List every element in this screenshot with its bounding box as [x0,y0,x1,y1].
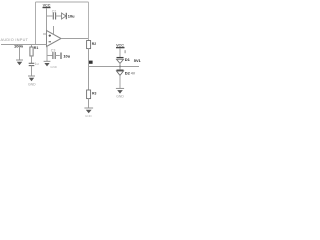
svg-text:R3: R3 [92,91,96,95]
wire feedback loop top horizontal [36,1,89,3]
wire input [1,44,47,46]
capacitor plate [60,53,62,60]
svg-text:4V: 4V [131,72,136,76]
ground 3 [44,61,58,69]
wire [88,99,90,108]
capacitor C3 [51,49,56,60]
svg-text:GND: GND [85,114,93,118]
wire op-amp output [61,38,89,40]
svg-text:5V1: 5V1 [134,58,142,63]
wire feedback loop left vertical [35,2,37,45]
ground 4 [84,108,93,118]
ground 1 [16,60,23,65]
svg-text:R2: R2 [92,42,96,46]
diode D1 [117,58,124,67]
wire [88,67,90,91]
wire [88,49,90,67]
wire bypass branch [47,55,52,57]
wire op-amp gnd pin [46,47,48,62]
power flag VCC2 [116,44,125,58]
power flag VCC1 [43,3,51,34]
svg-text:10u: 10u [63,54,70,59]
wire + input stub [43,33,47,35]
wire output column top [88,2,90,41]
svg-text:AUDIO INPUT: AUDIO INPUT [1,38,29,42]
svg-text:GND: GND [116,94,124,98]
label tick [125,50,126,53]
svg-text:10u: 10u [68,14,75,19]
wire rail y16 [47,15,53,17]
resistor R3 [87,90,97,99]
capacitor C2 [52,9,56,19]
svg-text:1u: 1u [35,62,39,66]
node clamp junction [119,66,121,68]
wire [31,56,33,63]
svg-text:GND: GND [28,83,36,87]
resistor R2 [87,41,97,49]
svg-text:D2: D2 [125,71,131,76]
resistor R1 [30,46,39,56]
svg-text:D1: D1 [125,57,131,62]
svg-text:GND: GND [50,65,58,69]
wire [31,66,33,76]
capacitor C1 [29,62,39,66]
op-amp U1 [47,26,62,47]
svg-text:R1: R1 [34,46,39,50]
wire [55,55,60,57]
svg-text:C3: C3 [51,49,56,53]
ground 2 [28,76,36,87]
wire [119,75,121,88]
diode D3 [62,13,67,19]
wire gnd branch 1 [19,45,21,60]
wire R branch [31,45,33,48]
net label OUT [89,61,93,64]
ground 5 [116,88,124,98]
wire output horizontal [89,66,140,68]
wire [56,15,62,17]
diode D2 [117,67,124,76]
